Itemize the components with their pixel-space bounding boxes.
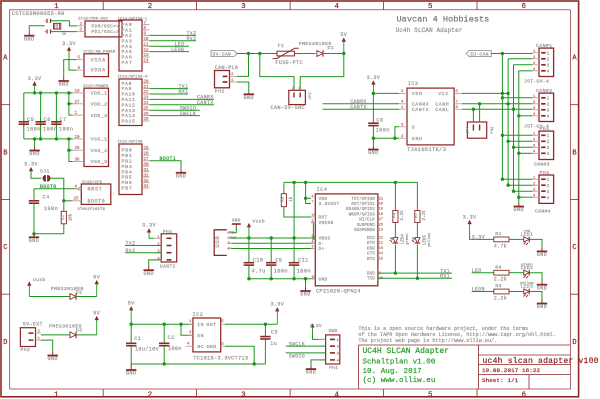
wire USB GND up xyxy=(232,227,237,233)
pin 4 NC xyxy=(186,345,193,347)
svg-text:4: 4 xyxy=(547,115,550,120)
svg-text:25: 25 xyxy=(74,198,80,202)
ground at VSS rail xyxy=(34,139,36,147)
ground at crystal xyxy=(28,32,30,36)
junction bus1 top xyxy=(501,52,504,55)
svg-text:Uavcan 4 Hobbiests: Uavcan 4 Hobbiests xyxy=(397,14,490,24)
svg-text:GND: GND xyxy=(232,219,241,224)
svg-text:4: 4 xyxy=(337,359,340,363)
svg-text:GND: GND xyxy=(412,136,423,142)
svg-text:SWDIO: SWDIO xyxy=(289,353,306,359)
svg-text:LED4: LED4 xyxy=(402,233,406,244)
svg-text:3.3V: 3.3V xyxy=(270,302,284,308)
wire VSS_2 join xyxy=(69,139,73,150)
pin 3 IC4 D+ xyxy=(311,248,315,250)
svg-text:D+: D+ xyxy=(319,246,325,252)
ground at CAN-PLG xyxy=(248,93,250,95)
power 5V from USB xyxy=(96,282,98,296)
wire crystal bottom to PD1 xyxy=(51,31,78,33)
svg-text:21: 21 xyxy=(379,197,383,201)
svg-text:1: 1 xyxy=(189,320,192,324)
wire PA11 CANRX xyxy=(150,98,215,100)
wire 3.3V to VDDA xyxy=(69,52,77,70)
svg-text:4: 4 xyxy=(533,151,536,155)
svg-text:PB3: PB3 xyxy=(122,164,133,170)
ground at USB (up) xyxy=(235,224,237,227)
svg-text:1: 1 xyxy=(547,97,550,102)
svg-text:RTS: RTS xyxy=(367,258,375,262)
svg-text:5V: 5V xyxy=(93,310,100,316)
svg-text:11: 11 xyxy=(379,242,383,246)
wire 5V-EXT pin2 to D3 xyxy=(41,334,70,336)
svg-text:1: 1 xyxy=(337,339,340,343)
wire PA14 SWCLK xyxy=(150,115,201,117)
pin stubs SWD xyxy=(319,338,326,340)
svg-text:4.7u: 4.7u xyxy=(252,268,266,274)
svg-text:4: 4 xyxy=(547,152,550,157)
pin 4 IC4 D- xyxy=(311,242,315,244)
svg-text:100n: 100n xyxy=(168,346,182,352)
svg-text:D1: D1 xyxy=(328,45,335,51)
svg-text:3.3V: 3.3V xyxy=(142,223,156,229)
svg-text:CTS: CTS xyxy=(367,253,375,257)
svg-text:16: 16 xyxy=(144,152,150,156)
junction C2 top xyxy=(163,323,166,326)
svg-text:PH4: PH4 xyxy=(329,365,338,371)
wire bus1 to pin1 xyxy=(502,134,532,136)
wire CANH to CAN#2 pin2 xyxy=(462,103,533,105)
svg-text:3: 3 xyxy=(547,64,550,69)
svg-text:UC4H SLCAN Adapter: UC4H SLCAN Adapter xyxy=(363,347,450,356)
svg-text:3: 3 xyxy=(547,146,550,151)
svg-text:2: 2 xyxy=(547,140,550,145)
junction CAN-PLG xyxy=(247,52,250,55)
svg-text:25: 25 xyxy=(312,275,316,279)
svg-text:IC2: IC2 xyxy=(193,312,204,318)
wire bus to CAN-5V-SRC left pin xyxy=(260,54,294,91)
junction 5V src xyxy=(258,52,261,55)
junction C1 xyxy=(130,323,133,326)
wire bus3 vertical xyxy=(513,65,515,191)
wire R4 to LED2 xyxy=(509,272,523,274)
svg-text:2.2k: 2.2k xyxy=(422,210,427,221)
svg-text:5V-CAN: 5V-CAN xyxy=(213,51,231,57)
wire CANRX to IC3 xyxy=(323,103,400,105)
wire JP4 pin1 to CANL xyxy=(472,109,474,122)
pin 5 VCC xyxy=(454,92,462,94)
svg-text:C5: C5 xyxy=(27,117,34,123)
svg-text:2: 2 xyxy=(533,101,536,105)
svg-text:26: 26 xyxy=(144,113,150,117)
svg-text:RXD: RXD xyxy=(367,273,375,277)
svg-text:The project web page is http:/: The project web page is http://www.olliw… xyxy=(358,338,497,344)
svg-text:15: 15 xyxy=(144,147,150,151)
wire NRST net xyxy=(34,188,79,190)
ground under IC4 xyxy=(305,279,307,288)
wire bus3 to pin3 xyxy=(514,146,533,148)
svg-text:VBUS: VBUS xyxy=(319,236,331,242)
svg-text:3.3V: 3.3V xyxy=(28,76,42,82)
svg-text:2: 2 xyxy=(547,103,550,108)
svg-text:100n: 100n xyxy=(44,206,58,212)
led LED4 green xyxy=(394,223,396,238)
svg-text:PB2: PB2 xyxy=(122,158,133,164)
wire RXD to TX1 xyxy=(378,272,452,274)
pin 3 EN xyxy=(189,334,193,336)
wire EN down xyxy=(181,324,193,335)
capacitor C4 xyxy=(33,189,35,201)
svg-text:C2: C2 xyxy=(168,335,175,341)
svg-text:PB1: PB1 xyxy=(122,153,133,159)
svg-text:GND: GND xyxy=(126,371,137,377)
svg-text:uc4h slcan adapter v100: uc4h slcan adapter v100 xyxy=(483,357,599,366)
wire CAN-PLG pin1 to GND xyxy=(237,82,249,93)
pin USB GND xyxy=(227,232,232,234)
wire PA13 SWDIO xyxy=(150,109,201,111)
svg-text:R7: R7 xyxy=(415,212,419,218)
svg-text:STM32F103TB: STM32F103TB xyxy=(78,208,106,212)
svg-text:PA9: PA9 xyxy=(122,86,132,92)
svg-text:GND: GND xyxy=(306,370,317,376)
svg-text:D3: D3 xyxy=(76,328,83,334)
capacitor C3 xyxy=(264,324,266,336)
pin 5 OUT xyxy=(221,323,225,325)
wire D+ row xyxy=(232,248,316,250)
svg-text:GND: GND xyxy=(58,82,69,88)
svg-text:3: 3 xyxy=(241,391,246,399)
svg-text:C8: C8 xyxy=(376,118,383,124)
svg-text:10. Aug. 2017: 10. Aug. 2017 xyxy=(363,368,422,376)
svg-text:VDD: VDD xyxy=(319,196,328,202)
svg-text:R2: R2 xyxy=(495,231,502,237)
wire 5V-EXT pin1 to GND xyxy=(41,340,53,352)
wire VDD_3 join xyxy=(69,104,73,115)
svg-text:CANH: CANH xyxy=(435,101,449,107)
svg-text:GND: GND xyxy=(368,150,379,156)
svg-text:EU-CAN: EU-CAN xyxy=(470,51,488,57)
wire OUT to 3.3V xyxy=(225,323,277,325)
svg-text:2: 2 xyxy=(547,58,550,63)
svg-text:20: 20 xyxy=(144,80,150,84)
svg-text:OUT: OUT xyxy=(206,322,216,328)
wire SWD pin4 to GND xyxy=(311,360,326,366)
svg-text:B: B xyxy=(572,149,576,157)
svg-text:PA1: PA1 xyxy=(122,28,133,34)
svg-text:2.2k: 2.2k xyxy=(494,296,507,302)
svg-text:S: S xyxy=(412,124,415,130)
svg-text:GND: GND xyxy=(29,151,40,157)
svg-text:3: 3 xyxy=(547,109,550,114)
pin 3 PD1 xyxy=(77,31,85,33)
svg-text:5: 5 xyxy=(428,391,433,399)
svg-text:PA2: PA2 xyxy=(122,33,133,39)
svg-text:29: 29 xyxy=(144,118,150,122)
svg-text:3: 3 xyxy=(547,190,550,195)
svg-text:19: 19 xyxy=(75,90,81,94)
svg-text:1u: 1u xyxy=(270,341,277,347)
svg-text:100n: 100n xyxy=(27,126,41,132)
wire PA9 TX1 xyxy=(150,88,189,90)
svg-text:7: 7 xyxy=(312,200,314,204)
svg-text:RX1: RX1 xyxy=(440,273,450,279)
svg-text:DSR: DSR xyxy=(367,247,375,251)
svg-text:PA7: PA7 xyxy=(122,60,133,66)
pin 1 CANTX IC3 xyxy=(399,108,407,110)
svg-text:23: 23 xyxy=(144,97,150,101)
svg-text:R3: R3 xyxy=(495,283,502,289)
svg-text:TC1015-3.3VCT713: TC1015-3.3VCT713 xyxy=(193,356,248,362)
svg-text:1: 1 xyxy=(533,133,536,137)
ground at CAN bus xyxy=(518,203,520,207)
junction VREGN xyxy=(312,236,315,239)
wire R1 C4 to GND xyxy=(34,233,64,235)
svg-text:C4: C4 xyxy=(43,195,50,201)
title block xyxy=(359,345,571,389)
svg-text:4: 4 xyxy=(312,240,314,244)
wire 5V rail to IN xyxy=(131,323,193,325)
wire IC2 GND down xyxy=(225,346,254,364)
svg-text:1: 1 xyxy=(157,236,160,240)
wire LED1 to GND xyxy=(529,239,542,248)
junction EN xyxy=(179,323,182,326)
pin 4 CANRX IC3 xyxy=(399,103,407,105)
svg-text:CAN-5V-SRC: CAN-5V-SRC xyxy=(270,105,305,111)
svg-text:VBUS: VBUS xyxy=(228,237,236,241)
svg-text:VSS_1: VSS_1 xyxy=(91,137,108,143)
svg-text:11: 11 xyxy=(144,43,150,47)
svg-text:3: 3 xyxy=(533,107,536,111)
svg-text:IC3: IC3 xyxy=(408,81,419,87)
svg-text:Tx2: Tx2 xyxy=(126,241,136,247)
svg-text:PH2: PH2 xyxy=(20,347,30,353)
wire bus4 to pin4 xyxy=(519,70,533,72)
svg-text:FUSE-PTC: FUSE-PTC xyxy=(275,60,303,66)
junction at 5V xyxy=(342,52,345,55)
wire R2 to LED1 xyxy=(509,238,523,240)
svg-text:9: 9 xyxy=(144,33,147,37)
svg-text:CANRX: CANRX xyxy=(412,101,429,107)
svg-text:3.3V: 3.3V xyxy=(62,41,76,47)
svg-text:RXT/GPIO1: RXT/GPIO1 xyxy=(351,202,375,207)
wire GND row bottom xyxy=(249,278,315,280)
svg-text:24: 24 xyxy=(144,102,150,106)
wire R3 to LED3 xyxy=(509,291,523,293)
svg-text:PH2: PH2 xyxy=(491,126,495,134)
wire JP4 pin2 to CANH xyxy=(479,104,481,122)
svg-text:2: 2 xyxy=(148,3,153,11)
svg-text:Vusb: Vusb xyxy=(253,218,265,224)
wire 3.3V to R2 xyxy=(472,238,494,240)
svg-text:TJA1051TK/3: TJA1051TK/3 xyxy=(407,146,446,153)
svg-text:SWD: SWD xyxy=(329,328,338,334)
capacitor C9 xyxy=(270,238,272,263)
svg-text:PA6: PA6 xyxy=(122,55,133,61)
svg-text:PB0: PB0 xyxy=(122,147,133,153)
svg-text:CANL: CANL xyxy=(435,107,449,113)
svg-text:4: 4 xyxy=(335,391,340,399)
svg-text:WKUP/GPIO3: WKUP/GPIO3 xyxy=(349,212,376,217)
svg-text:1: 1 xyxy=(54,3,59,11)
wire LEDB to R3 xyxy=(472,291,494,293)
wire C8 to GND pin xyxy=(373,137,399,139)
svg-text:8: 8 xyxy=(312,234,314,238)
svg-text:5V: 5V xyxy=(93,274,100,280)
svg-text:R1: R1 xyxy=(62,215,66,221)
svg-text:C7: C7 xyxy=(59,117,66,123)
pin 8 IC4 VBUS xyxy=(311,237,315,239)
svg-text:GND: GND xyxy=(29,238,40,244)
wire VSS_3 join xyxy=(69,150,73,161)
pin 6 VDDA xyxy=(77,69,85,71)
resistor R1 xyxy=(63,201,65,212)
svg-text:CANTX: CANTX xyxy=(350,104,367,110)
wire bus2 vertical xyxy=(507,59,509,185)
svg-text:GND: GND xyxy=(207,344,217,350)
resistor R7 xyxy=(416,182,418,210)
svg-text:C: C xyxy=(3,244,7,252)
svg-text:100n: 100n xyxy=(274,268,288,274)
ground at R1 xyxy=(33,234,35,238)
svg-text:C1: C1 xyxy=(134,336,141,342)
svg-text:2: 2 xyxy=(533,139,536,143)
junction 3.3V IC3 xyxy=(372,92,375,95)
svg-text:15: 15 xyxy=(379,257,383,261)
svg-text:14: 14 xyxy=(379,252,383,256)
svg-text:LEDB: LEDB xyxy=(171,47,184,53)
svg-text:10: 10 xyxy=(144,38,150,42)
svg-text:CP2102N-QFN24: CP2102N-QFN24 xyxy=(316,289,361,295)
svg-text:C10: C10 xyxy=(253,258,264,264)
svg-text:1: 1 xyxy=(533,95,536,99)
svg-text:LED5: LED5 xyxy=(424,234,428,245)
junction VSS xyxy=(67,137,70,140)
svg-text:TXT/GPIO0: TXT/GPIO0 xyxy=(351,197,375,202)
pin USB VBUS xyxy=(227,237,232,239)
svg-text:6: 6 xyxy=(312,195,314,199)
svg-text:32: 32 xyxy=(144,174,150,178)
svg-text:PD0/OSC<=: PD0/OSC<= xyxy=(92,23,120,29)
power 3.3V BOOT0 xyxy=(30,169,32,172)
svg-text:VCC: VCC xyxy=(438,91,449,97)
wire bus2 to pin2 xyxy=(508,184,532,186)
pin 1 CAN-PLG xyxy=(230,81,238,83)
resistor R6 xyxy=(394,182,396,210)
junction bus3 canl xyxy=(512,108,515,111)
wire R5 to RST xyxy=(284,207,311,217)
wire VREGN down xyxy=(311,222,313,238)
svg-text:2: 2 xyxy=(312,219,314,223)
wire D- row xyxy=(232,242,316,244)
wire bus4 vertical xyxy=(518,71,520,203)
svg-text:SWCLK: SWCLK xyxy=(289,341,306,347)
wire GND rail bottom xyxy=(131,363,265,365)
svg-text:SUSPEND: SUSPEND xyxy=(357,224,376,228)
ground at IC2 rail xyxy=(130,364,132,370)
pin 5 VSSA xyxy=(77,59,85,61)
svg-text:SUSPENDB: SUSPENDB xyxy=(354,229,375,233)
svg-text:PA11: PA11 xyxy=(122,97,136,103)
svg-text:7: 7 xyxy=(144,22,147,26)
svg-text:F1: F1 xyxy=(278,43,285,49)
power 3.3V LED1 xyxy=(469,222,471,232)
svg-text:SJ1: SJ1 xyxy=(40,168,50,174)
svg-text:6: 6 xyxy=(521,391,526,399)
svg-text:yellow: yellow xyxy=(427,232,432,246)
svg-text:green: green xyxy=(405,233,410,244)
wire D2 to 5V xyxy=(77,296,97,298)
svg-text:VSS_3: VSS_3 xyxy=(91,159,108,165)
junction bus2 canh xyxy=(506,102,509,105)
hierarchical label 5V-CAN xyxy=(211,50,237,56)
svg-text:17: 17 xyxy=(379,218,383,222)
svg-text:CAN#4: CAN#4 xyxy=(535,209,551,215)
svg-text:BOOT0: BOOT0 xyxy=(40,184,57,190)
svg-text:2: 2 xyxy=(292,86,294,90)
svg-text:Rx2: Rx2 xyxy=(187,36,197,42)
wire bus2 to pin2 xyxy=(508,140,532,142)
svg-text:1: 1 xyxy=(547,178,550,183)
svg-text:100n: 100n xyxy=(297,268,311,274)
svg-text:PB6: PB6 xyxy=(122,180,133,186)
wire Rx2 to pin3 xyxy=(125,252,161,254)
svg-text:3: 3 xyxy=(533,145,536,149)
svg-text:Uusb: Uusb xyxy=(33,277,45,283)
svg-text:LED1: LED1 xyxy=(520,232,533,238)
svg-text:PA14: PA14 xyxy=(122,113,136,119)
svg-text:GND: GND xyxy=(244,95,255,101)
svg-text:GND: GND xyxy=(319,276,328,282)
svg-text:C6: C6 xyxy=(44,117,51,123)
connector CAN-5V-SRC JP2 xyxy=(289,90,306,104)
svg-text:D-: D- xyxy=(228,242,232,246)
svg-text:PB4: PB4 xyxy=(122,169,133,175)
junction bus1 vcc xyxy=(501,92,504,95)
svg-text:30: 30 xyxy=(144,163,150,167)
svg-text:26: 26 xyxy=(75,147,81,151)
led LED5 yellow xyxy=(416,223,418,238)
ground at UART2 xyxy=(148,267,150,271)
svg-text:31: 31 xyxy=(144,169,150,173)
wire crystal to GND xyxy=(29,26,44,32)
svg-text:C11: C11 xyxy=(298,258,309,264)
wire CANL to CAN#2 pin3 xyxy=(462,108,533,110)
svg-text:JP2: JP2 xyxy=(309,92,313,100)
ground at LED3 xyxy=(541,300,543,304)
svg-text:20: 20 xyxy=(379,203,383,207)
wire LED4 to RXD line xyxy=(394,245,396,274)
wire SJ1 to BOOT0 pin xyxy=(51,178,64,201)
svg-text:A: A xyxy=(3,55,8,63)
junction bus2 vcc xyxy=(506,92,509,95)
wire PA5 LEDB xyxy=(150,51,190,53)
wire D3 to 5V xyxy=(77,334,97,336)
svg-text:VDD_1: VDD_1 xyxy=(91,91,108,97)
svg-text:C: C xyxy=(572,244,576,252)
pin 8 S xyxy=(399,126,407,128)
svg-text:3: 3 xyxy=(312,245,314,249)
svg-text:10: 10 xyxy=(75,136,81,140)
svg-text:Sheet: 1/1: Sheet: 1/1 xyxy=(482,377,519,384)
svg-text:3.3V: 3.3V xyxy=(24,161,38,167)
svg-text:100n: 100n xyxy=(59,126,73,132)
svg-text:5V: 5V xyxy=(128,301,135,307)
svg-text:1: 1 xyxy=(54,391,59,399)
capacitor C11 xyxy=(293,238,295,263)
svg-text:GND: GND xyxy=(514,207,525,213)
wire EU-CAN to CAN#1 pin1 xyxy=(491,53,532,55)
pin 3 VDD xyxy=(399,92,407,94)
wire 3.3V LED1 down xyxy=(470,232,472,239)
